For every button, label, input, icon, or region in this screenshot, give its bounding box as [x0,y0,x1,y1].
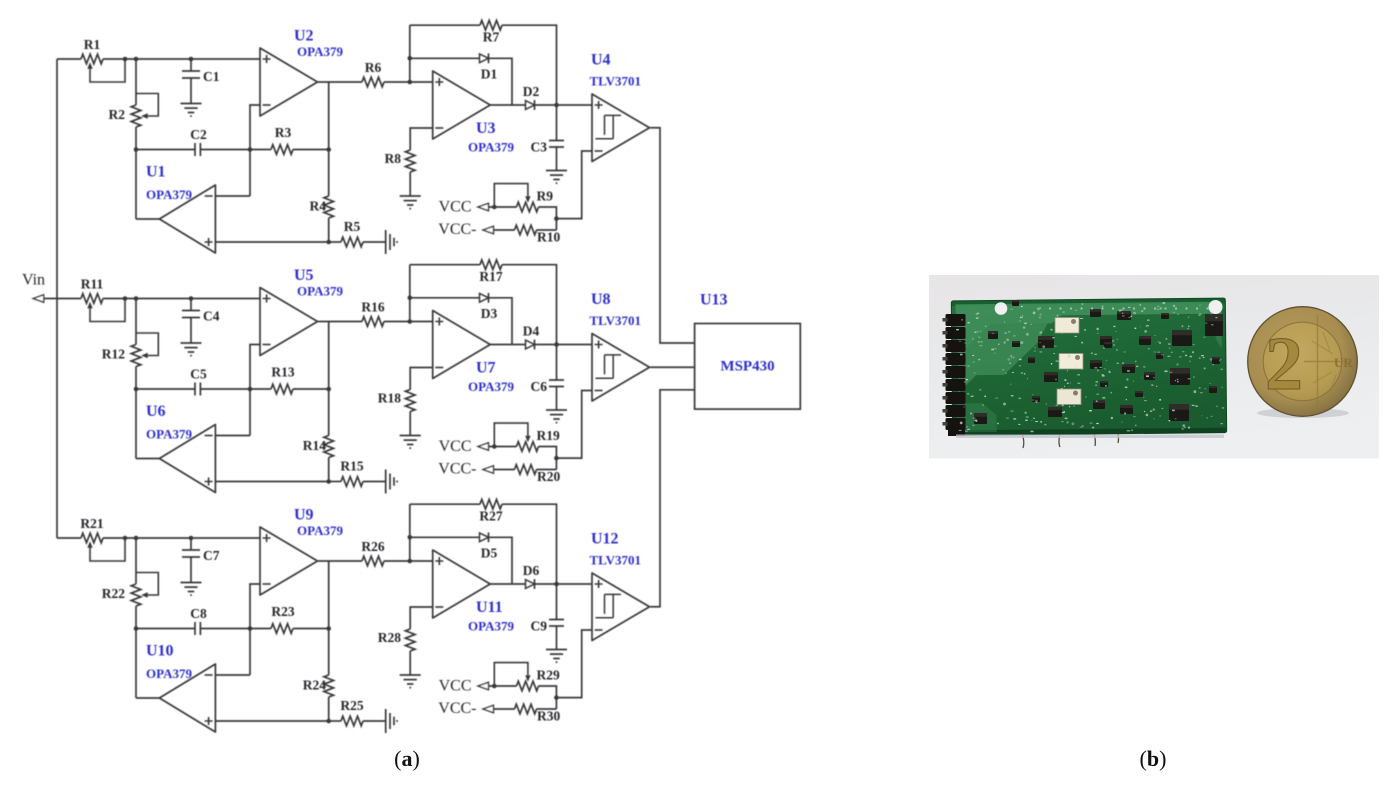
svg-text:OPA379: OPA379 [297,523,343,538]
ground R5 [386,230,397,254]
resistor R1 (potentiometer) [81,54,103,64]
PCB mounting hole right [1209,300,1223,314]
capacitor C7 [189,536,194,541]
svg-text:R21: R21 [80,516,103,531]
wire U4 output to MSP430 [650,128,694,343]
ground C1 [181,104,202,117]
wire input to R11 [44,298,81,300]
svg-text:R6: R6 [365,60,382,75]
resistor R10 [494,229,515,231]
wire U9 inverting input [250,584,260,675]
ICs and components [974,300,1223,424]
wire U6 non-inverting input [215,481,328,483]
svg-text:TLV3701: TLV3701 [590,553,642,568]
wire Vin input bus [56,59,58,538]
svg-text:C4: C4 [203,309,220,324]
op-amp U7 [433,311,491,379]
resistor R24 [324,675,334,697]
wire U11 output [490,583,525,585]
svg-text:C1: C1 [203,69,220,84]
capacitor C6 [549,345,564,411]
svg-text:R22: R22 [102,586,125,601]
svg-text:R16: R16 [361,300,384,315]
resistor R9 (potentiometer) [489,206,517,208]
svg-text:U7: U7 [476,360,496,377]
node D5 anode [408,535,413,540]
resistor R6 [362,77,384,87]
wire U5 output [318,321,362,323]
svg-text:Vin: Vin [22,272,45,289]
trimmer potentiometer 2 [1059,354,1083,370]
wire U12 inverting input [556,630,592,698]
node R4 bottom [326,240,331,245]
svg-text:OPA379: OPA379 [146,187,192,202]
wire U2 inverting input [250,105,260,196]
resistor R16 [362,317,384,327]
node C5 / feedback [248,387,253,392]
wire U4 inverting input [556,151,592,219]
svg-text:R29: R29 [537,668,560,683]
trimmer potentiometer 3 [1057,389,1081,405]
svg-text:R13: R13 [271,365,294,380]
wire U9 output feedback column [328,561,330,675]
svg-text:U5: U5 [294,267,314,284]
resistor R2 (potentiometer) [135,59,137,105]
wire clamp column [409,504,411,561]
node threshold divider [554,456,559,461]
svg-text:C2: C2 [190,127,207,142]
svg-text:U4: U4 [591,52,611,69]
svg-text:R2: R2 [109,107,126,122]
wire R2 bottom to U1 output [135,127,137,219]
comparator U12 [592,573,650,641]
node R14 bottom [326,479,331,484]
resistor R4 [324,196,334,218]
svg-text:R20: R20 [537,469,560,484]
svg-text:R23: R23 [271,604,294,619]
svg-text:D5: D5 [481,546,498,561]
ground C9 [546,650,567,663]
svg-text:R30: R30 [537,709,560,724]
svg-text:OPA379: OPA379 [146,666,192,681]
svg-text:U8: U8 [591,291,611,308]
wire U10 output [136,697,159,699]
svg-text:D4: D4 [523,324,540,339]
node D4 cathode [554,342,559,347]
resistor R30 [494,708,515,710]
wire U10 inverting input [215,674,250,676]
capacitor C5 [136,383,250,396]
resistor R7 [410,24,480,26]
resistor R20 [494,469,515,471]
diode D4 [526,340,535,349]
node D6 cathode [554,582,559,587]
svg-text:U3: U3 [476,120,496,137]
wire U2 output feedback column [328,82,330,196]
svg-text:UR: UR [1334,355,1353,370]
svg-text:R10: R10 [537,230,560,245]
svg-text:C8: C8 [190,606,207,621]
svg-text:R8: R8 [385,151,402,166]
ground R8 [400,196,421,209]
node C8 / feedback [248,626,253,631]
op-amp U10 [159,664,215,732]
svg-text:R28: R28 [378,630,401,645]
wire U11 inverting input [410,607,433,629]
wire U9 output [318,560,362,562]
svg-text:(b): (b) [1140,746,1167,771]
diode D1 [410,57,480,59]
svg-text:R18: R18 [378,391,401,406]
wire U1 non-inverting input [215,241,328,243]
wire U1 output [136,218,159,220]
svg-text:D2: D2 [523,84,540,99]
svg-text:R14: R14 [303,438,326,453]
resistor R22 (potentiometer) [135,538,137,584]
trimmer potentiometer 1 [1055,318,1079,334]
wire U1 inverting input [215,195,250,197]
svg-text:R17: R17 [479,269,502,284]
resistor R5 [329,241,341,243]
wire R21 to op-amp input [103,537,260,539]
node R3 / R4 [326,147,331,152]
resistor R13 [250,388,271,390]
resistor R25 [329,720,341,722]
resistor R11 (potentiometer) [81,294,103,304]
svg-text:U11: U11 [476,599,503,616]
silkscreen and pads [956,302,1224,432]
ground R18 [400,436,421,449]
wire U2 output [318,81,362,83]
wire U6 inverting input [215,435,250,437]
PCB mounting hole left [995,302,1008,315]
svg-text:VCC-: VCC- [438,700,476,717]
node R2 top [134,57,139,62]
resistor R17 [410,264,480,266]
ground C3 [546,171,567,184]
diode D3 [410,297,480,299]
node U3 non-inverting input [408,80,413,85]
resistor R19 (potentiometer) [489,446,517,448]
svg-text:R4: R4 [310,199,327,214]
svg-text:U1: U1 [146,164,166,181]
wire U5 output feedback column [328,322,330,436]
node C2 / feedback [248,147,253,152]
resistor R21 (potentiometer) [81,533,103,543]
svg-text:MSP430: MSP430 [720,359,774,375]
wire R1 to op-amp input [103,58,260,60]
resistor R18 [405,390,415,412]
svg-text:R5: R5 [344,219,361,234]
svg-text:VCC: VCC [439,438,472,455]
svg-text:TLV3701: TLV3701 [590,74,642,89]
svg-text:OPA379: OPA379 [468,140,514,155]
svg-text:R27: R27 [479,509,502,524]
svg-text:R24: R24 [303,678,326,693]
svg-text:TLV3701: TLV3701 [590,313,642,328]
wire U8 inverting input [556,391,592,459]
resistor R28 [405,629,415,651]
wire U5 inverting input [250,345,260,436]
svg-text:(a): (a) [394,746,420,771]
svg-text:C6: C6 [531,379,548,394]
capacitor C3 [549,105,564,171]
wire U8 output to MSP430 [650,366,694,368]
resistor R12 (potentiometer) [135,299,137,345]
diode D5 [410,536,480,538]
resistor R14 [324,436,334,458]
wire U10 non-inverting input [215,720,328,722]
svg-text:C3: C3 [531,140,548,155]
svg-text:VCC-: VCC- [438,221,476,238]
node threshold divider [554,695,559,700]
op-amp U11 [433,550,491,618]
wire U12 output to MSP430 [650,390,694,607]
svg-text:R3: R3 [275,125,292,140]
ground C4 [181,343,202,356]
svg-text:U6: U6 [146,403,166,420]
ground C7 [181,583,202,596]
solder joints [960,305,1212,430]
svg-text:R1: R1 [84,37,101,52]
capacitor C9 [549,584,564,650]
svg-text:R15: R15 [340,459,363,474]
svg-text:OPA379: OPA379 [297,284,343,299]
hookup wires below board [1022,433,1119,448]
svg-text:R11: R11 [81,277,104,292]
svg-text:VCC-: VCC- [438,461,476,478]
op-amp U1 [159,185,215,253]
wire U6 output [136,458,159,460]
resistor R26 [362,556,384,566]
comparator U4 [592,94,650,162]
resistor R3 [250,149,271,151]
wire U3 output [490,104,525,106]
svg-text:R9: R9 [537,189,554,204]
wire input to R1 [57,58,81,60]
ground R25 [386,709,397,733]
wire R12 bottom to U6 output [135,367,137,459]
svg-text:R19: R19 [537,428,560,443]
svg-text:U10: U10 [146,643,174,660]
node R1 wiper tap [123,57,128,62]
svg-text:R12: R12 [102,347,125,362]
node R24 bottom [326,719,331,724]
op-amp U3 [433,71,491,139]
wire U7 output [490,344,525,346]
pin header strip [943,314,966,436]
capacitor C2 [136,143,250,156]
resistor R23 [250,628,271,630]
svg-text:R25: R25 [340,698,363,713]
svg-text:D6: D6 [523,563,540,578]
node U11 non-inverting input [408,559,413,564]
op-amp U6 [159,425,215,493]
capacitor C1 [189,57,194,62]
resistor R29 (potentiometer) [489,685,517,687]
node R19 wiper [492,444,497,449]
ground R15 [386,470,397,494]
microcontroller U13 [695,324,801,410]
wire clamp column [409,265,411,322]
comparator U8 [592,334,650,402]
node R21 wiper tap [123,536,128,541]
node R12 top [134,296,139,301]
svg-text:U12: U12 [591,531,619,548]
node R22 top [134,536,139,541]
svg-text:OPA379: OPA379 [468,619,514,634]
node D2 cathode [554,103,559,108]
svg-text:R26: R26 [361,539,384,554]
wire U3 inverting input [410,128,433,150]
node R9 wiper [492,205,497,210]
op-amp U2 [260,48,318,116]
wire U7 inverting input [410,368,433,390]
svg-text:R7: R7 [483,30,500,45]
svg-text:U13: U13 [700,292,728,309]
svg-text:VCC: VCC [439,199,472,216]
op-amp U5 [260,288,318,356]
wire R22 bottom to U10 output [135,606,137,698]
node D1 anode [408,56,413,61]
resistor R8 [405,150,415,172]
node threshold divider [554,216,559,221]
node R11 wiper tap [123,296,128,301]
photo background [929,275,1379,459]
svg-text:U2: U2 [294,28,314,45]
svg-text:D1: D1 [481,67,498,82]
ground R28 [400,675,421,688]
ground C6 [546,410,567,423]
svg-text:OPA379: OPA379 [146,427,192,442]
node D3 anode [408,296,413,301]
svg-text:C7: C7 [203,548,220,563]
printed circuit board [951,298,1226,435]
capacitor C8 [136,622,250,635]
node U7 non-inverting input [408,319,413,324]
wire input to R21 [57,537,81,539]
svg-text:C9: C9 [531,619,548,634]
two euro coin [1248,307,1358,418]
svg-text:U9: U9 [294,507,314,524]
svg-text:D3: D3 [481,306,498,321]
svg-text:2: 2 [1265,322,1303,406]
node R29 wiper [492,684,497,689]
wire R11 to op-amp input [103,298,260,300]
node R23 / R24 [326,626,331,631]
svg-text:VCC: VCC [439,678,472,695]
capacitor C4 [189,296,194,301]
op-amp U9 [260,527,318,595]
resistor R27 [410,503,480,505]
svg-text:C5: C5 [190,367,207,382]
svg-text:OPA379: OPA379 [468,379,514,394]
resistor R15 [329,481,341,483]
diode D2 [526,101,535,110]
node R13 / R14 [326,387,331,392]
wire clamp column [409,25,411,82]
diode D6 [526,580,535,589]
board shadow [956,435,1224,439]
svg-text:OPA379: OPA379 [297,44,343,59]
